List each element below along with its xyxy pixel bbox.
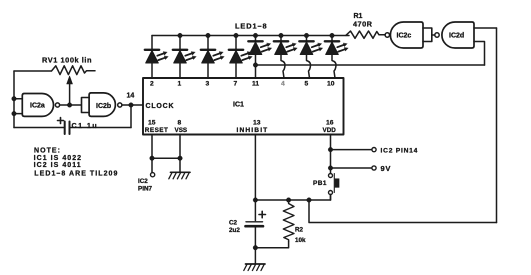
wire O4 line to IC2d input — [256, 64, 485, 66]
svg-text:IC1 IS 4022: IC1 IS 4022 — [34, 155, 83, 162]
svg-text:4: 4 — [281, 81, 285, 88]
wire C2 bottom to R2 bottom — [255, 241, 288, 248]
wire bottom rail right of C1 — [70, 127, 131, 129]
svg-text:LED1–8 ARE TIL209: LED1–8 ARE TIL209 — [34, 171, 118, 178]
svg-text:NOTE:: NOTE: — [34, 147, 61, 154]
resistor RV1 (zigzag) — [52, 66, 96, 75]
terminal 9V — [372, 166, 376, 170]
wire bottom rail left — [14, 127, 64, 129]
svg-text:IC1: IC1 — [233, 102, 244, 109]
svg-text:2u2: 2u2 — [229, 227, 240, 234]
wire LED anode top rail — [152, 35, 349, 37]
svg-text:2: 2 — [150, 81, 154, 88]
node dot reset link right — [178, 156, 183, 161]
terminal IC2 PIN14 — [372, 148, 376, 152]
svg-text:VDD: VDD — [323, 127, 337, 134]
svg-text:15: 15 — [148, 120, 156, 127]
svg-text:C1 1u: C1 1u — [72, 121, 99, 130]
capacitor C2 — [229, 200, 266, 248]
wire VDD pin down — [330, 135, 332, 174]
LED LED1 — [145, 36, 168, 79]
ground VSS — [169, 172, 190, 179]
node dot IC2a input top — [12, 96, 17, 101]
svg-text:3: 3 — [206, 81, 210, 88]
LED LED2 — [173, 33, 196, 78]
node dot C2 bottom — [253, 245, 258, 250]
svg-text:IC2b: IC2b — [96, 103, 111, 110]
resistor R2 zigzag — [283, 200, 294, 241]
IC2c input bracket — [423, 28, 432, 42]
nand gate IC2a — [22, 94, 59, 117]
wire IC2c bracket to IC2d output — [432, 34, 435, 36]
svg-text:CLOCK: CLOCK — [146, 103, 175, 110]
svg-text:IC2 PIN14: IC2 PIN14 — [381, 147, 419, 154]
ground main — [244, 264, 265, 271]
LED LED5 — [248, 33, 271, 78]
svg-text:IC2 IS 4011: IC2 IS 4011 — [34, 162, 82, 169]
svg-text:13: 13 — [253, 120, 261, 127]
wire RESET pin down — [151, 135, 153, 173]
svg-text:IC2a: IC2a — [30, 103, 45, 110]
wire IC2d top input to right vertical — [474, 27, 497, 29]
wire PB1 bottom to node — [330, 195, 332, 201]
svg-text:RESET: RESET — [145, 127, 169, 134]
node dot IC2a input bottom — [12, 111, 17, 116]
node dot reset link left — [150, 156, 155, 161]
IC1 4022 counter box — [143, 78, 344, 135]
switch PB1 — [313, 174, 339, 195]
svg-text:9V: 9V — [381, 164, 392, 173]
svg-text:IC2: IC2 — [138, 178, 148, 185]
wire IC2a output to IC2b input — [60, 104, 81, 106]
wire RESET to VSS link — [152, 157, 180, 159]
svg-text:VSS: VSS — [175, 127, 188, 134]
nand gate IC2b input tie bracket — [82, 98, 90, 113]
resistor R1 zigzag — [346, 31, 385, 38]
wire IC2b output to node 14 — [122, 104, 143, 106]
note text — [34, 147, 119, 177]
svg-text:C2: C2 — [229, 219, 238, 226]
nand gate IC2b — [89, 93, 122, 117]
svg-text:PB1: PB1 — [313, 180, 327, 187]
node dot R2 top — [286, 198, 291, 203]
wire to IC2 PIN14 terminal — [331, 149, 372, 151]
wire INHIBIT pin down — [254, 135, 256, 201]
node dot O4 — [253, 63, 258, 68]
node dot inhibit — [253, 198, 258, 203]
svg-text:11: 11 — [252, 81, 259, 88]
node dot VDD-9V — [328, 166, 333, 171]
node dot VDD-pin14 — [328, 147, 333, 152]
wire IC2d bottom input down to O4 line — [474, 42, 485, 66]
RV1 wiper arrow — [69, 83, 71, 105]
nand gate IC2c (mirrored, output faces left) — [385, 22, 423, 48]
svg-text:RV1 100k lin: RV1 100k lin — [42, 56, 92, 65]
svg-text:470R: 470R — [353, 20, 373, 29]
svg-text:14: 14 — [127, 92, 135, 99]
svg-text:INHIBIT: INHIBIT — [237, 127, 269, 134]
LED LED4 — [229, 33, 252, 78]
wire down to ground — [254, 248, 256, 264]
svg-text:PIN7: PIN7 — [138, 185, 152, 192]
wire top to RV1 left end — [14, 70, 51, 72]
svg-text:10k: 10k — [295, 237, 306, 244]
wire left rail vertical — [13, 71, 15, 128]
node dot wiper junction — [67, 103, 72, 108]
LED LED8 — [325, 33, 348, 78]
svg-text:IC2d: IC2d — [449, 33, 464, 40]
wire bottom return to PB1 node — [309, 200, 497, 223]
svg-text:10: 10 — [327, 81, 335, 88]
svg-text:1: 1 — [178, 81, 182, 88]
svg-text:8: 8 — [178, 120, 182, 127]
node dot branch down — [307, 198, 312, 203]
LED LED7 — [299, 33, 322, 78]
wire to 9V terminal — [331, 167, 372, 169]
wire IC2a input stubs — [14, 99, 22, 114]
capacitor C1 — [58, 118, 99, 135]
svg-text:LED1–8: LED1–8 — [235, 22, 268, 31]
svg-text:R2: R2 — [295, 227, 304, 234]
terminal IC2 PIN7 — [151, 173, 155, 177]
wire node line y200 — [255, 195, 330, 201]
wire VSS pin down — [179, 135, 181, 173]
LED LED6 — [274, 33, 297, 78]
wire node 14 down to bottom rail — [130, 105, 132, 128]
wire right vertical long — [496, 28, 498, 223]
node dot 14 — [129, 103, 134, 108]
LED LED3 — [201, 33, 224, 78]
svg-text:IC2c: IC2c — [397, 33, 412, 40]
svg-text:16: 16 — [326, 120, 334, 127]
svg-text:7: 7 — [234, 81, 238, 88]
svg-text:5: 5 — [305, 81, 309, 88]
nand gate IC2d (mirrored, output faces left) — [435, 22, 474, 48]
